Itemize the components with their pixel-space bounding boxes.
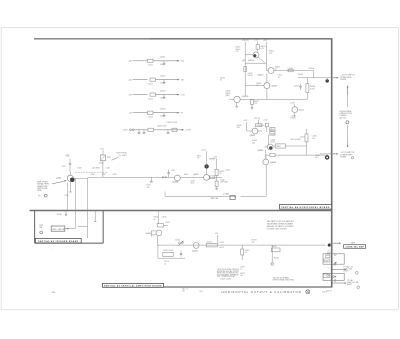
- svg-text:R439: R439: [113, 174, 117, 176]
- svg-text:R4085 C4085: R4085 C4085: [220, 278, 230, 280]
- wire vertical between deflection labels: [347, 86, 349, 108]
- svg-text:4: 4: [328, 268, 329, 270]
- connector box +GATE on sweep return: [223, 192, 236, 199]
- switch S40 box: [99, 155, 105, 177]
- svg-text:(GND): (GND): [270, 142, 275, 144]
- svg-text:-15V: -15V: [128, 94, 133, 96]
- wire Q4060 down to output wire: [156, 236, 158, 245]
- svg-text:Q4650: Q4650: [270, 162, 277, 164]
- svg-text:(DC ONLY): (DC ONLY): [119, 155, 128, 157]
- label C4076 0.1: [164, 261, 169, 265]
- junction blob inside Q4645: [269, 146, 272, 149]
- transistor Q4611 input fet: [229, 96, 249, 107]
- resistor R4077 on left branch: [241, 245, 250, 260]
- svg-text:C4314: C4314: [148, 117, 153, 119]
- label C4072: [219, 242, 224, 249]
- label box gate destination: [344, 245, 366, 249]
- capacitor C442 above wire: [167, 170, 175, 178]
- wire to + upper deflection plate crossing board edge: [298, 77, 339, 79]
- wire Q4650 emitter down and sweep return: [241, 165, 267, 196]
- wiper arrow from R455: [65, 228, 67, 230]
- transistor Q4645: [257, 144, 273, 152]
- wire - board outline bottom heavy horizontal: [103, 286, 333, 288]
- svg-text:L4318: L4318: [160, 109, 165, 111]
- svg-text:W4077: W4077: [347, 284, 352, 286]
- svg-text:Q430: Q430: [56, 178, 62, 180]
- flag symbol below deflection note: [346, 121, 349, 124]
- resistor R4617 vertical with ground: [251, 100, 259, 109]
- svg-text:R4070: R4070: [207, 241, 212, 243]
- capacitor C4075: [180, 251, 183, 257]
- junction blob at Q430: [70, 178, 75, 183]
- node +5V above calibrator wire: [215, 233, 219, 243]
- svg-text:L4320 140: L4320 140: [157, 125, 166, 127]
- node junction ring at lower deflection output: [326, 156, 329, 159]
- svg-text:TP410: TP410: [57, 214, 62, 216]
- svg-text:PARTIAL A9 VERTICAL AMPLIFIER: PARTIAL A9 VERTICAL AMPLIFIER BOARD: [104, 285, 162, 288]
- capacitor C431 vertical above Q430: [62, 154, 72, 171]
- wire Q4611 output to R4628 column: [240, 98, 307, 100]
- resistor R4082 box inside relay: [323, 259, 330, 262]
- svg-text:+170V: +170V: [122, 130, 129, 132]
- label box PARTIAL A4 HORIZONTAL BOARD: [280, 204, 332, 209]
- svg-text:R433: R433: [78, 167, 82, 169]
- svg-text:+15V (2): +15V (2): [242, 40, 249, 42]
- svg-text:Q4645: Q4645: [257, 150, 264, 152]
- supply decoupling row +15V: inductor L4314, filter cap, wire: [128, 75, 185, 87]
- svg-text:C4652: C4652: [300, 137, 305, 139]
- capacitor C4648: [294, 84, 302, 91]
- svg-text:435: 435: [147, 187, 150, 189]
- svg-text:C439: C439: [102, 174, 106, 176]
- svg-text:PLATE: PLATE: [340, 78, 347, 81]
- capacitor C4642 label: [312, 136, 317, 140]
- svg-text:+GATE SEL SWP: +GATE SEL SWP: [345, 246, 365, 249]
- svg-text:Q4413: Q4413: [193, 174, 198, 176]
- relay K4075 upper box: [323, 253, 344, 265]
- svg-text:C4604: C4604: [220, 78, 225, 80]
- labels C4077 C4079: [240, 266, 245, 276]
- svg-text:+15V: +15V: [128, 79, 133, 81]
- svg-text:+: +: [163, 100, 164, 102]
- resistor R444 label below wire: [191, 181, 195, 185]
- labels C4628 left lower: [236, 125, 241, 129]
- label box PARTIAL A9 VERTICAL AMPLIFIER BOARD: [102, 283, 163, 287]
- junction blob above Q445: [204, 164, 208, 168]
- labels near Q4647: [256, 83, 261, 87]
- branch down from calibrator wire: [158, 245, 185, 258]
- svg-text:74 8 74: 74 8 74: [322, 291, 327, 293]
- capacitor C4611 branch: [243, 60, 253, 77]
- svg-text:+15V (2): +15V (2): [254, 118, 261, 120]
- svg-text:C435 R437: C435 R437: [92, 167, 101, 169]
- resistor R446 vertical: [213, 157, 224, 181]
- transistor Q4060: [145, 230, 162, 237]
- svg-text:C4320 L4321: C4320 L4321: [166, 122, 177, 124]
- node +15V above R4613: [254, 40, 259, 45]
- svg-text:R4079: R4079: [240, 273, 245, 275]
- svg-text:160: 160: [252, 142, 255, 144]
- svg-text:L4311: L4311: [160, 57, 165, 59]
- svg-text:C4062: C4062: [165, 222, 170, 224]
- svg-text:+: +: [163, 85, 164, 87]
- wire vertical x75.6 into trigger board: [75, 178, 77, 210]
- wire R455 wiper to x75.6: [69, 228, 75, 230]
- input arrow sweep signal to Q430 base: [52, 181, 65, 184]
- svg-text:R4081: R4081: [272, 246, 277, 248]
- svg-text:4.02K: 4.02K: [310, 88, 315, 90]
- wire output y155 to ring junction: [266, 155, 325, 159]
- labels on wire Q430-Q440: [91, 174, 117, 176]
- transistor Q4613: [245, 52, 259, 62]
- transistor Q440: [149, 175, 181, 184]
- supply row +170V: connector J4320, inductor L4320, caps, wire: [122, 122, 192, 133]
- svg-text:(P): (P): [38, 196, 41, 198]
- svg-text:R404: R404: [107, 157, 111, 159]
- wire Q445 to resistor column: [209, 176, 222, 178]
- wire output network y72.5: [274, 68, 314, 78]
- svg-text:(Q440): (Q440): [173, 182, 179, 184]
- svg-text:TERM: TERM: [276, 146, 281, 148]
- svg-text:Q4631: Q4631: [249, 135, 255, 137]
- svg-text:R4632 750: R4632 750: [257, 125, 265, 127]
- svg-text:(Q4611): (Q4611): [242, 96, 249, 98]
- wire - board outline middle heavy horizontal: [30, 210, 333, 212]
- svg-text:Q4615: Q4615: [257, 74, 264, 76]
- wire vertical x67.6 into trigger board: [67, 183, 69, 211]
- junction dot calibrator output at board edge: [328, 244, 331, 247]
- resistor R4075 box: [163, 250, 174, 256]
- svg-text:OR DEPICTED IN GREY.: OR DEPICTED IN GREY.: [267, 229, 288, 231]
- transistor Q430: [56, 175, 73, 181]
- label R4078 15K above output wire: [252, 240, 257, 244]
- label SWP CAL flag: [39, 225, 44, 234]
- labels R4064 1K near top: [154, 217, 167, 221]
- resistor box inside lower relay: [323, 274, 335, 278]
- svg-text:4B2: 4B2: [182, 290, 185, 292]
- labels above linkage: [78, 167, 110, 169]
- resistor R4612 box on supply vertical: [244, 67, 247, 72]
- resistor R4610 labels left: [235, 47, 240, 53]
- svg-text:SWP CAL: SWP CAL: [211, 197, 219, 200]
- label to CAL OUT 4V: [343, 265, 358, 274]
- svg-text:R46 46: R46 46: [309, 68, 315, 70]
- svg-text:-15V: -15V: [181, 94, 186, 96]
- relay wiper arrow lower: [332, 277, 335, 279]
- svg-text:W4075: W4075: [343, 270, 348, 272]
- supply decoupling row -15V: inductor L4316, filter cap, wire: [128, 90, 185, 102]
- component box R4081 on output wire: [271, 246, 280, 252]
- svg-text:.056: .056: [236, 127, 239, 129]
- wire termination to R4652 column y146: [285, 145, 306, 147]
- svg-text:46: 46: [275, 69, 277, 71]
- svg-text:+170V: +170V: [185, 130, 192, 132]
- resistor R4628 vertical: [306, 78, 315, 100]
- arrow out cal 4V via W4075: [332, 268, 345, 270]
- title diamond symbol: [306, 290, 310, 294]
- transistor Q4070: [192, 243, 199, 253]
- svg-text:910: 910: [240, 275, 243, 277]
- svg-text:W430: W430: [37, 190, 41, 192]
- svg-text:Q4613: Q4613: [248, 60, 255, 62]
- wire cross between supply verticals: [245, 62, 266, 64]
- svg-text:Q4647: Q4647: [271, 86, 277, 88]
- wire - trigger board outline left vertical: [34, 211, 36, 244]
- svg-text:C4313: C4313: [148, 98, 153, 100]
- node +15V above switch: [99, 148, 104, 155]
- svg-text:INTERCONNECTING PINS.: INTERCONNECTING PINS.: [273, 280, 295, 282]
- svg-text:C4311: C4311: [148, 65, 153, 67]
- transistor Q4650: [263, 150, 277, 165]
- wire branch down to open circle: [271, 245, 279, 265]
- wire Q440 to Q445: [180, 174, 203, 177]
- svg-text:R443: R443: [184, 174, 188, 176]
- component box L4070: [206, 241, 217, 247]
- svg-text:(GND): (GND): [291, 118, 297, 120]
- svg-text:R431: R431: [65, 195, 69, 197]
- wire calibrator output y245: [157, 244, 325, 246]
- svg-text:C4: C4: [328, 249, 330, 251]
- svg-text:R4646: R4646: [298, 74, 303, 76]
- svg-text:L4314: L4314: [160, 75, 165, 77]
- svg-text:175: 175: [67, 156, 70, 158]
- svg-text:+: +: [163, 118, 164, 120]
- svg-text:0.1: 0.1: [240, 268, 242, 270]
- svg-text:C4082: C4082: [326, 254, 331, 256]
- supply decoupling row +50V: inductor L4311, filter cap, wire: [128, 57, 185, 69]
- svg-text:(S40): (S40): [99, 162, 104, 164]
- svg-text:L4645 (C4646): L4645 (C4646): [290, 139, 301, 141]
- wire - board outline right heavy vertical (upper): [331, 38, 333, 210]
- svg-text:R4414: R4414: [225, 170, 230, 172]
- svg-text:(4HF): (4HF): [225, 95, 230, 97]
- svg-text:.01: .01: [277, 77, 279, 79]
- svg-text:R438: R438: [91, 174, 95, 176]
- svg-text:R4612: R4612: [248, 75, 253, 77]
- wire - trigger board outline right vertical: [102, 211, 104, 244]
- svg-text:0.1: 0.1: [164, 264, 166, 266]
- switch blade EXT HORIZ: [107, 153, 128, 161]
- svg-text:PARTIAL A4 HORIZONTAL BOARD: PARTIAL A4 HORIZONTAL BOARD: [281, 206, 330, 209]
- resistor R4652 vertical: [300, 129, 308, 155]
- svg-text:46.4: 46.4: [315, 157, 318, 159]
- labels near Q4650 network: [252, 140, 257, 144]
- svg-text:L4072: L4072: [219, 247, 224, 249]
- capacitor C4612 label: [291, 115, 297, 119]
- wire Q430 collector/emitter: [69, 172, 88, 193]
- svg-text:R455: R455: [52, 229, 56, 231]
- wire - board outline right heavy vertical (lower): [331, 211, 333, 288]
- svg-text:SWEEP: SWEEP: [209, 159, 216, 161]
- node +15V left of Q4631: [243, 120, 248, 131]
- wire R4632 column down to Q4645: [268, 135, 270, 146]
- wire Q4613 emitter diagonal: [258, 57, 264, 62]
- wire - board outline top heavy line: [34, 38, 332, 40]
- transistor Q445: [193, 174, 209, 180]
- capacitor C441 stub: [147, 177, 153, 189]
- resistor R4632 vertical with +15V: [257, 119, 269, 132]
- connector circles on Q440 base wire: [162, 177, 166, 179]
- resistor R4609 horizontal box with +15V: [254, 118, 262, 127]
- svg-text:C4072: C4072: [219, 242, 224, 244]
- label C4636 below switch boxes: [270, 140, 275, 144]
- wire sweep return y196: [165, 192, 236, 200]
- svg-text:Q4060: Q4060: [145, 233, 151, 235]
- wire junction vertical stub: [326, 78, 328, 81]
- resistor R442 label: [197, 155, 201, 159]
- transistor Q4643: [257, 68, 274, 77]
- svg-text:+50V: +50V: [128, 61, 133, 63]
- svg-text:C4636: C4636: [270, 140, 275, 142]
- resistor R4613 vertical: [256, 45, 265, 52]
- component box on output wire: [270, 154, 275, 157]
- transistor Q4627: [290, 102, 305, 117]
- wire base feed to Q4647: [245, 85, 264, 87]
- svg-text:C431: C431: [62, 166, 66, 168]
- label box PARTIAL A5 TRIGGER BOARD: [35, 238, 81, 243]
- svg-text:R4082: R4082: [324, 260, 329, 262]
- svg-text:R4077: R4077: [245, 250, 250, 252]
- svg-text:C442: C442: [171, 170, 175, 172]
- potentiometer R455 SWP CAL box: [51, 226, 65, 231]
- transistor Q4631: [247, 128, 262, 137]
- wire - trigger board outline bottom horizontal: [35, 242, 104, 244]
- resistor box R4062: [157, 211, 170, 228]
- label to cal out lower: [347, 279, 360, 289]
- node junction dot at deflection output: [326, 79, 329, 82]
- svg-text:R4075 4.99K: R4075 4.99K: [163, 250, 173, 252]
- wire vertical x87.6 into trigger board: [87, 178, 89, 210]
- labels far left of Q4611: [220, 78, 225, 82]
- svg-text:(DLY'D): (DLY'D): [340, 117, 347, 119]
- wire +gate output through board edge: [329, 242, 341, 244]
- relay wiper arrow upper: [333, 263, 335, 265]
- svg-text:HORIZONTAL OUTPUT & CALI: HORIZONTAL OUTPUT & CALIBRATOR: [222, 290, 302, 294]
- svg-text:+170V: +170V: [290, 102, 296, 104]
- svg-text:R4083: R4083: [274, 257, 279, 259]
- svg-text:47: 47: [220, 80, 222, 82]
- labels right of Q4643: [275, 66, 282, 78]
- svg-text:L4316: L4316: [160, 90, 165, 92]
- svg-text:PLATE: PLATE: [340, 156, 347, 159]
- arrow out cal 1kHz: [332, 282, 345, 284]
- labels above Q4611: [225, 91, 230, 97]
- node +15V feed left: [242, 40, 249, 96]
- wire vertical x75.6 inside trigger board: [75, 211, 77, 229]
- test point TP410 below heavy line: [57, 211, 68, 216]
- svg-text:C4312: C4312: [148, 83, 153, 85]
- wire vertical x87.6 inside trigger board: [78, 211, 88, 239]
- component box right of Q445: [210, 176, 215, 179]
- svg-text:50: 50: [245, 252, 247, 254]
- switch contact boxes horiz display: [270, 128, 276, 136]
- svg-text:C438: C438: [106, 167, 110, 169]
- supply decoupling row +5V: inductor L4318, filter cap, wire: [129, 109, 184, 121]
- capacitor C4082 box inside relay: [326, 254, 331, 258]
- relay lower box: [323, 273, 344, 281]
- wire vertical x95 tick: [94, 211, 96, 222]
- svg-text:Q4070: Q4070: [192, 251, 198, 253]
- flag symbol below sweep label: [38, 194, 47, 197]
- svg-text:C4064: C4064: [175, 240, 180, 242]
- resistor R447 vertical: [215, 179, 229, 189]
- svg-text:4B2 +15: 4B2 +15: [182, 289, 188, 291]
- wire vertical +15V to Q445: [201, 150, 206, 175]
- wire to - lower deflection plate: [320, 153, 338, 156]
- label - lower deflection plate: [340, 152, 355, 159]
- dashed mechanical linkage line: [75, 172, 108, 174]
- resistor R4615 labels: [269, 51, 274, 55]
- svg-text:L4646: L4646: [288, 68, 293, 70]
- junction blob inside Q4613: [253, 54, 256, 57]
- termination network box L4645 TERM: [273, 144, 285, 148]
- node +15V above Q4643 column: [263, 40, 268, 68]
- variable capacitor C4064: [175, 240, 184, 246]
- svg-text:PARTIAL A5 TRIGGER BOARD: PARTIAL A5 TRIGGER BOARD: [38, 240, 79, 243]
- wire horizontal Q430 to Q440: [88, 176, 149, 178]
- svg-text:CAL: CAL: [39, 226, 42, 229]
- svg-text:R4417: R4417: [220, 179, 225, 181]
- resistor R431 below Q430: [65, 195, 69, 197]
- wire vertical to lower deflection plate: [347, 125, 349, 147]
- svg-text:+: +: [51, 249, 52, 251]
- svg-text:Q4627: Q4627: [299, 110, 305, 112]
- svg-text:.001: .001: [312, 138, 315, 140]
- svg-text:+: +: [163, 66, 164, 68]
- transistor Q4647: [264, 73, 277, 99]
- svg-text:C4648: C4648: [294, 86, 299, 88]
- svg-text:C4060: C4060: [162, 217, 167, 219]
- svg-text:C4077: C4077: [240, 266, 245, 268]
